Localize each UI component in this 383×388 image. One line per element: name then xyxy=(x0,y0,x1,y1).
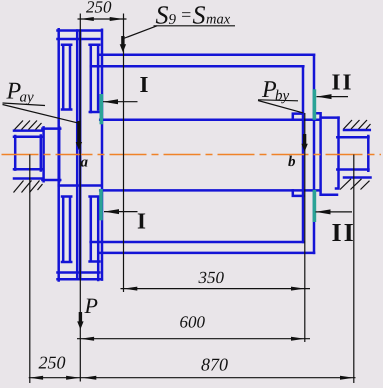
svg-text:b: b xyxy=(288,154,296,170)
svg-text:870: 870 xyxy=(201,355,228,375)
svg-text:S: S xyxy=(193,1,206,30)
svg-text:250: 250 xyxy=(86,0,112,17)
svg-text:II: II xyxy=(332,70,354,95)
svg-text:9: 9 xyxy=(169,12,177,28)
svg-text:II: II xyxy=(332,218,356,247)
svg-text:ay: ay xyxy=(20,90,35,106)
svg-text:600: 600 xyxy=(180,313,206,332)
svg-text:I: I xyxy=(140,72,149,97)
svg-text:I: I xyxy=(137,209,146,234)
svg-text:S: S xyxy=(156,1,169,30)
svg-text:P: P xyxy=(84,293,98,318)
svg-text:a: a xyxy=(81,155,89,171)
svg-text:by: by xyxy=(275,88,290,104)
svg-text:=: = xyxy=(180,5,192,25)
svg-text:350: 350 xyxy=(198,268,225,287)
svg-text:250: 250 xyxy=(39,353,66,373)
svg-text:max: max xyxy=(206,12,231,28)
